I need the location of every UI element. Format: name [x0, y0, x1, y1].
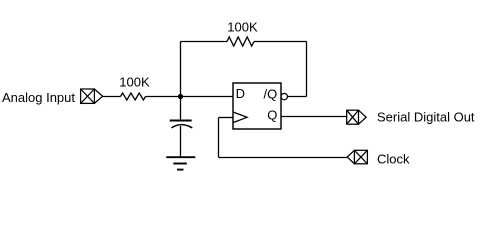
wire: clock stub into U1 [219, 117, 234, 119]
wire: node A up to feedback rail [180, 42, 182, 97]
flip-flop U1 box [233, 83, 281, 129]
wire: clock vertical [218, 118, 220, 158]
wire: clock horizontal to J3 [219, 157, 348, 159]
connector J3 Clock [347, 150, 367, 164]
U1 clock triangle [233, 112, 247, 123]
node A junction dot [178, 94, 183, 99]
svg-text:Analog Input: Analog Input [2, 90, 75, 105]
wire: R1 to node A and on to D input [146, 96, 234, 98]
resistor R1 100K [121, 93, 146, 100]
connector J1 Analog Input [81, 89, 103, 103]
ground [166, 157, 195, 169]
svg-text:D: D [236, 86, 245, 101]
svg-text:Serial Digital Out: Serial Digital Out [377, 109, 475, 124]
wire: node A down to C1 [180, 97, 182, 120]
wire: J1 to R1 [103, 96, 121, 98]
svg-text:Clock: Clock [377, 152, 410, 167]
svg-text:/Q: /Q [264, 87, 278, 102]
resistor R2 100K [227, 37, 254, 46]
wire: /Q bubble to feedback vertical [288, 96, 307, 98]
wire: Q output to J2 [281, 116, 347, 118]
wire: feedback right vertical down to /Q [306, 42, 308, 97]
svg-text:100K: 100K [227, 20, 258, 35]
U1 /Q inversion bubble [281, 93, 287, 99]
capacitor C1 [170, 121, 193, 128]
svg-text:Q: Q [267, 108, 277, 123]
wire: C1 to ground [180, 126, 182, 157]
wire: feedback rail left segment [181, 41, 228, 43]
wire: feedback rail right segment [254, 41, 307, 43]
connector J2 Serial Digital Out [347, 110, 367, 124]
svg-text:100K: 100K [119, 74, 150, 89]
